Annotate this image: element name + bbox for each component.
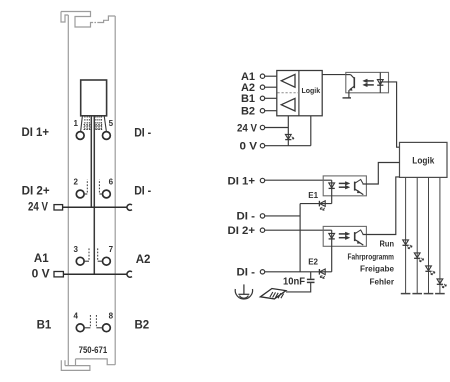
wire A2 to driver (265, 86, 277, 88)
clamp contact 1 (76, 132, 84, 140)
O2 LED (331, 230, 333, 272)
protection diode D1 (285, 134, 291, 139)
contact 2 internal finger (85, 193, 88, 195)
dashed connector pins left (85, 116, 89, 130)
svg-text:0 V: 0 V (32, 269, 50, 281)
svg-text:5: 5 (109, 119, 114, 128)
24V jumper male contact (54, 205, 63, 210)
DIN rail symbol (260, 289, 286, 299)
svg-text:24 V: 24 V (28, 201, 48, 213)
driver box U1 (277, 71, 322, 116)
svg-text:24 V: 24 V (237, 122, 258, 134)
wire B2 to driver (265, 110, 277, 112)
svg-text:750-671: 750-671 (79, 345, 108, 355)
svg-text:6: 6 (109, 178, 114, 187)
input optocoupler O1 box (323, 176, 366, 196)
wire B1 to driver (265, 97, 277, 99)
LED Fehler (437, 279, 447, 288)
receiver triangle A (281, 74, 295, 87)
module housing bottom step (76, 359, 116, 365)
protection diode branch (287, 116, 289, 146)
svg-text:DI -: DI - (237, 267, 256, 279)
module housing right edge (114, 16, 116, 365)
rail Fahrprogramm (416, 177, 418, 293)
wire 0V up to driver (310, 116, 312, 146)
LED Fahrprogramm (414, 253, 424, 262)
U2 phototransistor (346, 74, 351, 76)
dashed cross links (84, 125, 103, 130)
output LED rails (401, 177, 445, 293)
terminal 0V (260, 144, 264, 148)
O1 phototransistor (354, 182, 356, 191)
contact 6 internal finger (99, 193, 102, 195)
svg-text:Freigabe: Freigabe (360, 264, 394, 274)
status LED E2 on wire (319, 269, 325, 279)
wire DI- row1 (265, 215, 300, 217)
rail Freigabe (428, 177, 430, 293)
svg-text:Logik: Logik (412, 156, 435, 167)
svg-text:Logik: Logik (301, 88, 320, 95)
O1 LED (331, 180, 333, 203)
svg-text:4: 4 (73, 312, 78, 321)
svg-text:1: 1 (73, 119, 78, 128)
LED Freigabe (425, 266, 435, 275)
svg-text:B1: B1 (37, 320, 52, 332)
wire DI1+ to opto E1 (265, 179, 332, 181)
svg-text:DI -: DI - (134, 128, 151, 140)
svg-text:A2: A2 (136, 254, 151, 266)
terminal 24V (260, 125, 264, 129)
module housing left ear (61, 12, 68, 23)
O2 phototransistor (354, 232, 356, 241)
driver box divider (298, 71, 300, 116)
module housing left edge (67, 15, 69, 366)
wire 24V from connector (90, 116, 92, 208)
svg-text:B2: B2 (241, 106, 255, 118)
clamp contact 4 (76, 324, 84, 332)
rail Fehler (439, 177, 441, 293)
0V jumper female contact (127, 271, 132, 277)
U2 emitter rail tick (343, 97, 352, 99)
24V jumper female contact (127, 204, 132, 210)
wire U2 to Logik (380, 82, 399, 147)
module housing outline top profile (61, 12, 115, 28)
svg-text:DI 2+: DI 2+ (228, 225, 256, 237)
svg-text:DI 2+: DI 2+ (22, 185, 50, 197)
driver box dashed mid line (278, 92, 299, 94)
svg-text:DI 1+: DI 1+ (228, 175, 256, 187)
svg-text:DI -: DI - (237, 211, 256, 223)
svg-text:8: 8 (109, 312, 114, 321)
wire 0V (265, 145, 311, 147)
wire fan to contact 5 (104, 116, 106, 131)
terminal DI1+ (260, 178, 264, 182)
U2 LED (379, 72, 381, 92)
terminal B2 (260, 109, 264, 113)
U2 light arrows (367, 80, 374, 82)
wire DI- row2 (265, 271, 332, 273)
clamp contact 2 (76, 190, 84, 198)
24V power jumper rail (63, 206, 127, 208)
contact 3 internal finger (85, 260, 89, 262)
LED Run (403, 240, 413, 249)
contact 7 internal finger (98, 260, 102, 262)
0V jumper male contact (54, 272, 63, 277)
dashed connector pins right (96, 116, 102, 130)
wire O1 output to Logik (363, 163, 400, 185)
0V power jumper rail (64, 273, 128, 275)
clamp contact 6 (103, 190, 111, 198)
svg-text:2: 2 (73, 178, 78, 187)
clamp contact 3 (76, 257, 84, 265)
clamp contact 8 (103, 324, 111, 332)
wire O2 output to Logik (363, 177, 400, 235)
svg-text:Fahrprogramm: Fahrprogramm (348, 251, 395, 261)
svg-text:3: 3 (73, 245, 78, 254)
earth symbol (235, 284, 252, 299)
terminal DI- row1 (260, 214, 264, 218)
input optocoupler O2 box (323, 226, 366, 246)
terminal B1 (260, 96, 264, 100)
terminal DI- row2 (260, 270, 264, 274)
module housing bottom plate (61, 360, 90, 370)
rail Run (405, 177, 407, 293)
svg-text:B2: B2 (135, 320, 150, 332)
wire 24V (265, 127, 289, 129)
terminal DI2+ (260, 228, 264, 232)
svg-text:E1: E1 (308, 191, 318, 200)
svg-text:DI 1+: DI 1+ (22, 127, 50, 139)
terminal A2 (260, 85, 264, 89)
status LED E1 on wire (300, 203, 332, 205)
bus connector block (81, 80, 107, 116)
contact 8 internal finger (96, 327, 102, 329)
clamp contact 7 (103, 257, 111, 265)
Logik box U3 (400, 142, 448, 177)
O2 light arrows (339, 233, 346, 235)
receiver triangle B (281, 98, 295, 111)
svg-text:0 V: 0 V (240, 141, 258, 153)
svg-text:Run: Run (380, 239, 395, 249)
wire fan to contact 1 (81, 116, 83, 131)
wire A1 to driver (265, 75, 277, 77)
wire 0V from connector (93, 116, 95, 274)
O1 light arrows (339, 182, 346, 184)
wire driver to feedback opto (322, 74, 346, 76)
module housing bottom foot vertical (75, 359, 77, 366)
feedback optocoupler U2 box (346, 72, 389, 92)
capacitor C1 10nF (286, 272, 315, 292)
svg-text:Fehler: Fehler (370, 277, 395, 287)
svg-text:10nF: 10nF (283, 275, 306, 287)
terminal A1 (260, 74, 264, 78)
clamp contact 5 (103, 132, 111, 140)
svg-text:DI -: DI - (134, 185, 151, 197)
svg-text:7: 7 (109, 245, 114, 254)
svg-text:E2: E2 (308, 258, 318, 267)
wire DI2+ to opto E2 (265, 229, 332, 231)
svg-text:A1: A1 (34, 253, 49, 265)
svg-text:B1: B1 (241, 93, 255, 105)
contact 4 internal finger (85, 327, 91, 329)
DI- common vertical (299, 204, 301, 272)
